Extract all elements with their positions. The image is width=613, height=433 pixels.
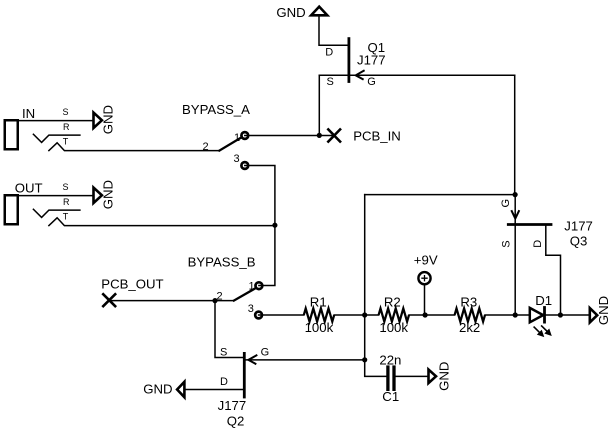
svg-text:22n: 22n <box>379 353 401 368</box>
svg-text:S: S <box>63 182 69 192</box>
svg-text:D: D <box>220 376 228 388</box>
svg-text:R1: R1 <box>310 294 327 309</box>
svg-text:R2: R2 <box>384 294 401 309</box>
svg-text:G: G <box>261 346 270 358</box>
svg-text:1: 1 <box>234 132 240 144</box>
svg-text:G: G <box>500 199 512 208</box>
svg-text:Q2: Q2 <box>227 414 245 429</box>
svg-text:OUT: OUT <box>15 180 43 195</box>
svg-text:C1: C1 <box>382 389 399 404</box>
svg-text:BYPASS_A: BYPASS_A <box>182 102 250 117</box>
svg-text:3: 3 <box>234 153 240 165</box>
svg-text:T: T <box>63 212 69 222</box>
svg-text:2k2: 2k2 <box>459 320 480 335</box>
svg-text:S: S <box>501 240 513 247</box>
svg-text:GND: GND <box>596 296 611 325</box>
svg-text:R3: R3 <box>460 294 477 309</box>
svg-text:PCB_IN: PCB_IN <box>353 128 401 143</box>
svg-text:BYPASS_B: BYPASS_B <box>188 254 256 269</box>
svg-text:J177: J177 <box>357 52 386 67</box>
svg-text:GND: GND <box>100 180 115 209</box>
svg-text:S: S <box>220 346 227 358</box>
svg-text:2: 2 <box>217 291 223 303</box>
svg-text:100k: 100k <box>379 320 408 335</box>
svg-text:J177: J177 <box>218 398 247 413</box>
svg-text:R: R <box>63 197 70 207</box>
svg-text:D: D <box>532 240 544 248</box>
svg-text:Q3: Q3 <box>570 233 588 248</box>
svg-text:R: R <box>63 122 70 132</box>
svg-text:3: 3 <box>248 303 254 315</box>
svg-text:IN: IN <box>22 106 35 121</box>
svg-text:GND: GND <box>437 362 452 391</box>
svg-text:T: T <box>63 137 69 147</box>
svg-text:S: S <box>63 107 69 117</box>
svg-text:2: 2 <box>203 141 209 153</box>
svg-text:GND: GND <box>100 105 115 134</box>
svg-text:GND: GND <box>276 5 305 20</box>
svg-text:D: D <box>325 47 333 59</box>
svg-text:J177: J177 <box>564 219 593 234</box>
svg-text:+9V: +9V <box>414 253 438 268</box>
svg-text:1: 1 <box>249 280 255 292</box>
svg-text:100k: 100k <box>305 320 334 335</box>
svg-text:S: S <box>327 76 334 88</box>
svg-text:G: G <box>367 76 376 88</box>
svg-text:PCB_OUT: PCB_OUT <box>101 276 163 291</box>
svg-text:D1: D1 <box>535 293 552 308</box>
svg-text:GND: GND <box>143 382 172 397</box>
